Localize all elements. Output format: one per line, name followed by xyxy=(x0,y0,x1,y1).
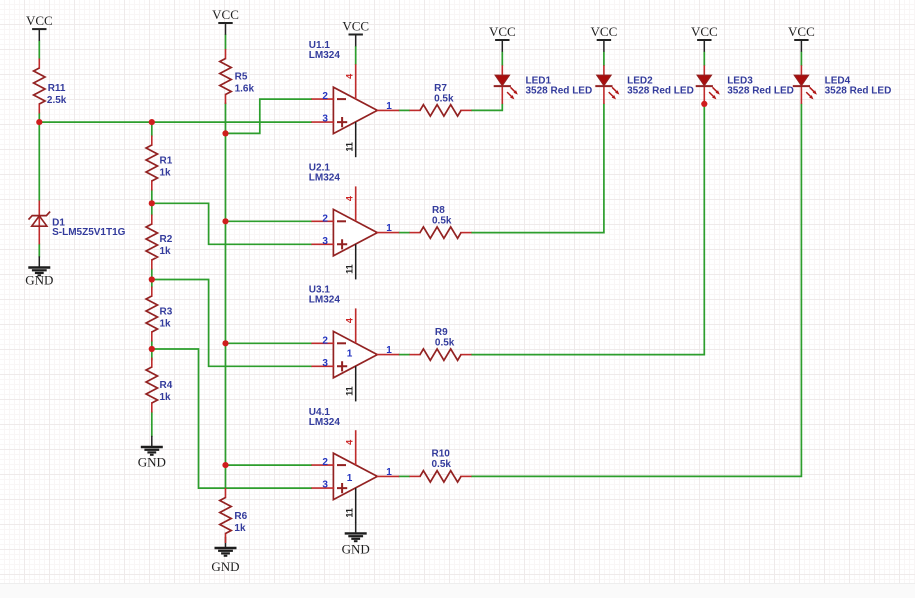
wire U4 output to R10 xyxy=(399,475,411,477)
svg-text:3528 Red LED: 3528 Red LED xyxy=(627,86,694,97)
resistor R1 1k xyxy=(146,136,157,191)
svg-text:LM324: LM324 xyxy=(309,295,341,306)
junction node A (R11/D1/bus) xyxy=(36,119,42,125)
svg-text:R4: R4 xyxy=(160,380,173,391)
junction column to U3 pin2 xyxy=(222,340,228,346)
power flag VCC LED4 xyxy=(788,24,815,52)
LED2 3528 Red LED xyxy=(595,65,619,104)
resistor R8 0.5k xyxy=(410,227,472,238)
junction column to U1 pin2 jog xyxy=(222,130,228,136)
wire VCC to LED4 anode xyxy=(800,52,802,67)
svg-text:3528 Red LED: 3528 Red LED xyxy=(526,86,593,97)
resistor R3 1k xyxy=(146,287,157,342)
op-amp U2 LM324 xyxy=(311,186,399,279)
svg-text:1.6k: 1.6k xyxy=(235,84,255,95)
wire D1 anode to GND xyxy=(38,244,40,258)
resistor R10 0.5k xyxy=(410,471,472,482)
resistor R11 2.5k xyxy=(34,59,45,114)
power flag VCC U1 xyxy=(342,19,369,47)
svg-text:LM324: LM324 xyxy=(309,50,341,61)
wire R11 to node A xyxy=(38,113,40,123)
wire R1 to R2 xyxy=(151,190,153,216)
svg-text:1: 1 xyxy=(347,473,353,484)
wire VCC to LED2 anode xyxy=(603,52,605,67)
wire node A to D1 cathode xyxy=(38,122,40,201)
svg-text:R5: R5 xyxy=(235,72,248,83)
wire R7 to LED1 cathode xyxy=(471,104,502,111)
wire R8 to LED2 cathode xyxy=(471,104,604,233)
power flag VCC left rail xyxy=(26,13,53,41)
junction column to U2 pin2 xyxy=(222,218,228,224)
power flag VCC LED3 xyxy=(691,24,718,52)
svg-text:0.5k: 0.5k xyxy=(434,94,454,105)
svg-text:1k: 1k xyxy=(160,168,172,179)
svg-text:GND: GND xyxy=(25,272,53,287)
wire R3 to R4 xyxy=(151,341,153,361)
resistor R7 0.5k xyxy=(410,105,472,116)
power flag VCC R5 column xyxy=(212,7,239,35)
ground below R4 xyxy=(141,436,163,455)
svg-text:3528 Red LED: 3528 Red LED xyxy=(727,86,794,97)
power flag VCC LED2 xyxy=(591,24,618,52)
svg-text:GND: GND xyxy=(211,559,239,574)
wire column node to R6 top xyxy=(225,465,227,489)
svg-text:R10: R10 xyxy=(432,449,451,460)
junction R2/R3 tap xyxy=(149,276,155,282)
junction R3/R4 tap xyxy=(149,346,155,352)
resistor R6 1k xyxy=(220,488,231,543)
wire U1 output to R7 xyxy=(399,109,411,111)
svg-text:1k: 1k xyxy=(234,523,246,534)
wire R2 to R3 xyxy=(151,269,153,288)
wire U2 output to R8 xyxy=(399,232,411,234)
LED4 3528 Red LED xyxy=(793,65,817,104)
svg-text:0.5k: 0.5k xyxy=(432,459,452,470)
wire U3 output to R9 xyxy=(399,354,411,356)
svg-text:R9: R9 xyxy=(435,327,448,338)
wire U1 VCC to pin4 xyxy=(355,46,357,65)
LED3 3528 Red LED xyxy=(696,65,720,104)
wire VCC to R5 xyxy=(225,34,227,49)
wire bus to R1 top xyxy=(151,122,153,136)
op-amp U3 LM324 xyxy=(311,308,399,401)
wire column to U1 pin2 (jog) xyxy=(226,99,313,133)
resistor R4 1k xyxy=(146,358,157,413)
op-amp U1 LM324 xyxy=(311,64,399,157)
svg-text:2.5k: 2.5k xyxy=(47,95,67,106)
svg-text:S-LM5Z5V1T1G: S-LM5Z5V1T1G xyxy=(52,227,126,238)
svg-text:R7: R7 xyxy=(434,83,447,94)
wire R2/R3 tap to U3 pin3 xyxy=(152,280,312,367)
svg-text:LM324: LM324 xyxy=(309,417,341,428)
svg-text:R3: R3 xyxy=(160,307,173,318)
svg-text:3528 Red LED: 3528 Red LED xyxy=(825,86,892,97)
svg-text:R2: R2 xyxy=(160,234,173,245)
ground U4 pin11 xyxy=(345,522,367,541)
wire column to U4 pin2 xyxy=(226,464,313,466)
wire VCC to R11 xyxy=(38,40,40,59)
svg-text:1k: 1k xyxy=(160,392,172,403)
svg-text:R8: R8 xyxy=(432,205,445,216)
resistor R5 1.6k xyxy=(220,49,231,104)
ground below D1 xyxy=(28,256,50,275)
junction R1/R2 tap xyxy=(149,200,155,206)
wire column to U2 pin2 xyxy=(226,220,313,222)
svg-text:LM324: LM324 xyxy=(309,172,341,183)
wire R4 to GND xyxy=(151,412,153,438)
svg-text:0.5k: 0.5k xyxy=(432,216,452,227)
wire VCC to LED1 anode xyxy=(501,52,503,67)
wire R9 to LED3 cathode xyxy=(471,104,704,355)
svg-text:0.5k: 0.5k xyxy=(435,338,455,349)
junction LED3 cathode xyxy=(701,101,707,107)
junction column to U4 pin2 and R6 xyxy=(222,462,228,468)
wire R1/R2 tap to U2 pin3 xyxy=(152,203,312,244)
svg-text:R11: R11 xyxy=(48,83,66,94)
wire VCC to LED3 anode xyxy=(703,52,705,67)
svg-text:R1: R1 xyxy=(160,156,173,167)
resistor R2 1k xyxy=(146,215,157,270)
op-amp U4 LM324 xyxy=(311,430,399,523)
svg-text:GND: GND xyxy=(138,454,166,469)
LED1 3528 Red LED xyxy=(494,65,518,104)
wire column to U3 pin2 xyxy=(226,342,313,344)
svg-text:1: 1 xyxy=(347,349,353,360)
resistor R9 0.5k xyxy=(410,349,472,360)
svg-text:1k: 1k xyxy=(160,246,172,257)
power flag VCC LED1 xyxy=(489,24,516,52)
ground below R6 xyxy=(215,537,237,556)
wire R10 to LED4 cathode xyxy=(471,104,801,477)
svg-text:GND: GND xyxy=(342,541,370,556)
wire reference bus node A to U1 pin3 xyxy=(39,121,312,123)
junction bus to R1 chain xyxy=(149,119,155,125)
wire R5 column down to U4 pin2 node xyxy=(225,103,227,466)
wire R3/R4 tap to U4 pin3 xyxy=(152,349,312,488)
svg-text:1k: 1k xyxy=(160,319,172,330)
svg-text:R6: R6 xyxy=(234,511,247,522)
zener diode D1 S-LM5Z5V1T1G xyxy=(29,201,51,245)
